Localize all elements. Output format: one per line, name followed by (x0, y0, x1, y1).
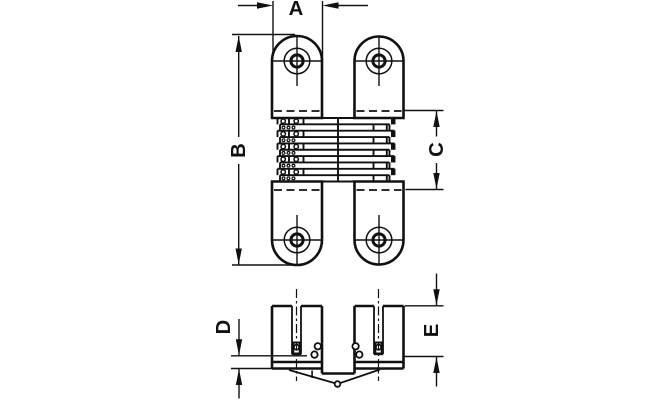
dimension A (238, 1, 368, 61)
link row 2 (280, 124, 390, 130)
link row 10 (280, 175, 390, 181)
dashed mortise line lower right (357, 189, 402, 191)
dimension B (232, 35, 295, 266)
left slot (292, 306, 301, 354)
lower left hole (273, 215, 322, 265)
link row 9 (278, 169, 395, 175)
bottom view: right block (355, 306, 404, 374)
center tab bottom (322, 372, 355, 374)
dashed mortise line lower left (274, 189, 320, 191)
lower left lobe (272, 182, 322, 266)
dimension D (231, 319, 307, 399)
stub line (311, 371, 313, 379)
left centerline (296, 289, 298, 381)
link row 1 (278, 118, 395, 124)
face plate top edge (272, 361, 404, 363)
svg-text:B: B (228, 143, 250, 158)
lower right hole (355, 215, 403, 265)
lower right lobe (355, 182, 404, 265)
upper left hole (273, 37, 322, 87)
upper right hole (355, 37, 403, 87)
upper right lobe (355, 37, 404, 119)
dashed mortise line upper right (357, 110, 402, 112)
left screw pin (293, 343, 299, 354)
upper left lobe (272, 36, 322, 118)
right centerline (378, 289, 380, 381)
dimension C (404, 111, 444, 190)
svg-text:E: E (421, 324, 443, 338)
dimension E (405, 274, 444, 387)
link row 4 (280, 137, 390, 143)
face plate bottom edge (272, 367, 404, 369)
bottom view: left block (272, 306, 322, 374)
link row 5 (278, 143, 395, 149)
link row 6 (280, 150, 390, 156)
pivot circle (335, 381, 341, 387)
link row 3 (278, 131, 395, 137)
V link arm right (340, 370, 380, 384)
link row 7 (278, 156, 395, 162)
svg-text:D: D (213, 320, 235, 335)
svg-text:A: A (289, 0, 304, 20)
dashed mortise line upper left (274, 110, 320, 112)
right slot (374, 306, 383, 354)
link pin circles (311, 343, 362, 358)
link row 8 (280, 162, 390, 168)
link stack bottom (278, 181, 395, 183)
right screw pin (375, 343, 381, 354)
V link arm left (289, 370, 335, 383)
svg-text:C: C (426, 142, 448, 157)
